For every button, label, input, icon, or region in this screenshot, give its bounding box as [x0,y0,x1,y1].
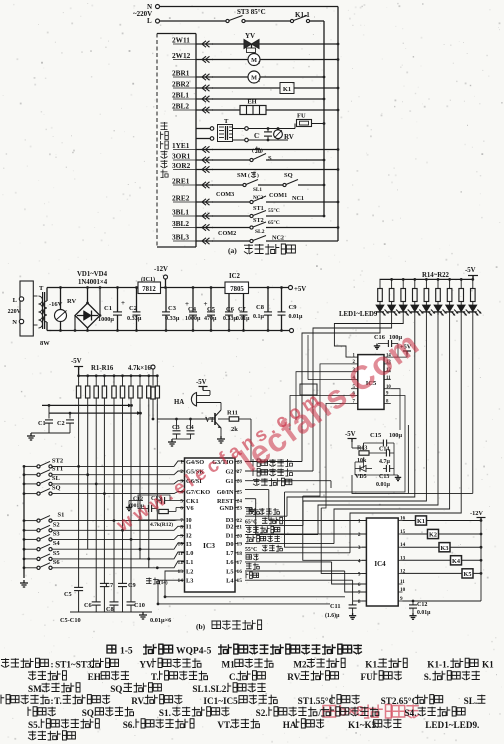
svg-text:CK1: CK1 [186,498,199,505]
wire input to transformer [33,295,37,297]
switch S5 [23,558,26,561]
svg-text:C5-C10: C5-C10 [60,617,81,624]
pin 8 IC5 [384,402,391,404]
relay K4 [451,556,462,565]
svg-text:55°C: 55°C [245,546,257,553]
wire IC4 pin6 net from pin17 [332,562,367,584]
svg-text:T: T [39,285,44,292]
microswitch SM and door switch SQ on 2RE1 [212,184,243,186]
label indicator dry pin22 [245,515,287,517]
pin 12 IC5 [384,371,391,373]
svg-text:I1: I1 [186,524,192,531]
svg-text:S1.: S1. [159,708,171,718]
svg-text:WQP4-5: WQP4-5 [176,647,212,657]
wire LED9 net [472,322,474,493]
resistor R6 [121,374,124,377]
pin 10 IC5 [384,388,391,390]
svg-text:LED1~LED9: LED1~LED9 [339,311,378,318]
capacitor C7 0.01u [242,329,245,332]
wire pin25 [245,489,269,491]
svg-text:-5V: -5V [71,358,82,365]
svg-text:RV.: RV. [131,696,145,706]
svg-text:IC1~IC5.: IC1~IC5. [203,696,240,706]
svg-text:VT: VT [205,417,215,424]
label microcomputer control board (vertical) [161,122,168,130]
pin 1 IC5 [351,356,358,358]
relay K1 [416,516,427,525]
wire IC4 pin8 net from pin15 [352,580,354,601]
pin 14 IC4 [398,546,402,548]
svg-text:IC4: IC4 [374,560,386,568]
svg-text:C5: C5 [64,591,72,598]
svg-text:C12: C12 [417,602,427,608]
svg-text:D1: D1 [226,533,234,540]
svg-text:SM: SM [237,172,247,179]
svg-text:I2: I2 [186,533,192,540]
wire LED5 net [303,322,426,525]
label drain pin16 [245,570,345,572]
pin 8 IC4 [362,600,366,602]
wire row 2W11 [212,43,244,45]
svg-text:SQ: SQ [52,485,61,492]
svg-text:T.: T. [54,696,62,706]
ground for C1 C2 [30,433,32,436]
wire block bottom to LED9 [408,492,472,494]
svg-text:14: 14 [178,578,184,584]
svg-text:0.01μ: 0.01μ [289,314,304,320]
resistor R14 [379,279,381,288]
watermark red bottom [323,706,336,718]
wire left ground bus [23,466,25,578]
svg-text:0.33μ: 0.33μ [165,315,180,322]
capacitor C15 [382,440,384,447]
svg-text:16: 16 [237,569,243,575]
resistor R5 [113,374,116,377]
svg-text:C2: C2 [57,420,65,427]
pin 3 IC4 [362,546,366,548]
switch ST1 [23,473,26,476]
svg-text:-5V: -5V [345,431,356,438]
resistor R18 [425,278,428,281]
label indicator heating pin27 [245,470,313,472]
wire under-IC3 run upper [165,571,345,597]
svg-text:L6: L6 [226,559,233,566]
wire SL to IC3 [52,481,185,484]
svg-text:C14: C14 [379,447,389,453]
pin 11 IC4 [398,583,402,585]
svg-text:(1.6)μ: (1.6)μ [325,612,340,619]
svg-text:S1: S1 [58,512,65,519]
svg-text:2BL1: 2BL1 [172,91,189,100]
capacitor C4 1000u [192,286,195,289]
wire L line left [160,20,228,22]
wire IC5 inputs left [303,364,351,496]
pin 7 IC4 [362,591,366,593]
wire pin26 vertical [330,481,332,488]
wire L line mid [245,20,291,22]
svg-text:470μ: 470μ [204,316,217,322]
svg-text:9: 9 [180,533,183,539]
capacitor C2 0.33u [135,286,138,289]
svg-text:S4.: S4. [404,708,416,718]
wire HA to VT collector [220,403,222,411]
svg-text:100μ: 100μ [389,432,402,439]
resistor R19 [437,278,440,281]
svg-text:RV.: RV. [287,672,301,682]
relay K5 [462,569,473,578]
svg-text:S6.: S6. [123,720,135,730]
svg-text:C5: C5 [207,306,216,313]
svg-text:1YE1: 1YE1 [172,141,190,150]
ground VT emitter [220,436,222,439]
switch SQ [23,492,26,495]
svg-text:(a): (a) [228,246,237,255]
svg-text:10: 10 [386,385,391,390]
svg-text:M2.: M2. [293,660,309,670]
pin 6 IC4 [362,583,366,585]
svg-text:4: 4 [358,558,361,564]
svg-text:K3: K3 [441,545,449,552]
scan speckle noise [163,113,166,116]
svg-text:NC1: NC1 [292,195,304,202]
svg-text:): ) [261,147,263,154]
wire block outline right [352,425,408,493]
wire IC4 pin3 net [285,492,367,547]
wire IC4 pin9 bottom [403,600,482,602]
svg-text:S2: S2 [53,521,60,528]
pin 4 IC4 [362,559,366,561]
wire SQ to IC3 [52,492,185,494]
LED LED4 [411,305,419,312]
wire LED supply bus [380,278,474,280]
svg-text:C3: C3 [172,424,180,431]
svg-text:20: 20 [237,533,243,539]
svg-text:19: 19 [237,542,243,548]
wire S2 to IC3 [52,526,185,530]
ground C12 bottom [412,613,414,616]
resistor R10 [156,374,159,377]
relay K3 [439,543,450,552]
label indicator rinse pin26 [245,480,331,482]
svg-text:7812: 7812 [142,286,156,293]
ground caps rail [142,612,144,615]
svg-text:YV.: YV. [139,660,153,670]
svg-text:17: 17 [237,560,243,566]
svg-text:15: 15 [237,578,243,584]
svg-text:T.: T. [151,672,159,682]
wire IC4 pin2 net [255,499,257,534]
capacitor C8 0.1u [267,286,270,289]
resistor R22 [471,278,474,281]
svg-text:SM.: SM. [28,684,44,694]
svg-text:C7: C7 [238,306,246,313]
label indicator standard-wash pin20 [245,534,318,536]
svg-text:4.7μ: 4.7μ [379,459,391,465]
svg-text:C6: C6 [226,306,235,313]
svg-text:2W11: 2W11 [172,36,190,45]
svg-text:COM1: COM1 [269,192,287,199]
switch S4 [23,548,26,551]
svg-text:C15: C15 [370,432,382,439]
wire +5V dropline [307,335,309,380]
svg-text:C1: C1 [104,305,112,312]
svg-text:23: 23 [237,506,243,512]
wire IC5 pin14 to +5V [391,356,407,358]
svg-text:0.01μ: 0.01μ [236,316,250,322]
water level switch SL1 contacts COM3 COM1 NC1 on 2RE2 [212,201,250,203]
svg-text:0.01μ: 0.01μ [376,482,391,488]
svg-text:L: L [147,17,152,25]
wire row 2BR2 [212,87,280,89]
capacitor C6 0.33u [228,286,231,289]
resistor R21 [460,278,463,281]
ground C16 [378,343,384,345]
svg-text:G1: G1 [225,478,233,485]
svg-text:RV: RV [284,133,294,141]
svg-text:YV: YV [245,32,255,40]
capacitor C13 osc [160,497,162,504]
wire row 1YE1 [212,149,338,151]
wire row 3OR2 [212,169,338,171]
svg-text:18: 18 [237,551,243,557]
svg-text:S6: S6 [53,559,61,566]
wire LED1 to IC3 pin28 [302,322,380,462]
svg-text:VT.: VT. [217,720,231,730]
wire ST2 to IC3 [52,461,185,466]
svg-text:C.: C. [229,672,238,682]
pin 3 IC5 [351,371,358,373]
svg-text:K1.: K1. [365,660,379,670]
svg-text:22: 22 [237,518,243,524]
wire LED6 net [318,322,438,535]
svg-text:D0: D0 [226,541,234,548]
svg-text:26: 26 [237,479,243,485]
LED LED5 [422,305,430,312]
legend line4 control circuit [1,695,10,704]
svg-text:10: 10 [400,587,406,593]
pin 2 IC5 [351,363,358,365]
svg-text:L4: L4 [226,578,234,585]
wire under-IC3 run lower [158,580,330,604]
svg-text:SL.: SL. [464,696,478,706]
capacitor C11 bottom [352,601,354,605]
svg-text:S5: S5 [53,550,61,557]
wire osc block nets [138,495,170,509]
resistor R3 [95,374,98,377]
power rail bottom ground [61,330,290,332]
svg-text:SL1: SL1 [253,187,262,193]
ground osc block [128,505,130,507]
svg-text:C4: C4 [188,306,197,313]
svg-text:L2: L2 [186,568,193,575]
svg-text:V6: V6 [186,505,194,512]
svg-text:SL1.SL2.: SL1.SL2. [192,684,228,694]
switch S heating select [212,159,250,161]
svg-text:+: + [121,299,125,307]
switch ST2 [23,465,26,468]
svg-text:K1-1.: K1-1. [427,660,449,670]
svg-text:27: 27 [237,469,243,475]
svg-text:12: 12 [178,560,184,566]
svg-text:1: 1 [258,60,260,65]
svg-text:I3: I3 [186,541,192,548]
svg-text:1: 1 [358,519,361,525]
water level switch SL2 COM2 NC2 on 3BL3 [212,240,250,242]
svg-text:0.01μ×6: 0.01μ×6 [150,617,171,624]
resistor R12 osc [159,509,169,513]
svg-text:4.7k(R12): 4.7k(R12) [150,521,173,528]
svg-text:7805: 7805 [230,286,244,293]
svg-text::: : [51,696,54,706]
wire column lines down to switches and IC3 [78,404,80,587]
label indicator quick-wash pin28 [245,461,302,463]
svg-text:): ) [257,172,259,179]
svg-text:RV: RV [67,298,76,305]
svg-text:2BR2: 2BR2 [172,80,190,89]
power rail top -12V raw [61,287,291,289]
svg-text:GND: GND [220,505,234,512]
svg-text:S.: S. [424,672,431,682]
svg-text:(b): (b) [196,622,206,631]
svg-text:2: 2 [258,78,260,83]
svg-text:L: L [13,297,18,304]
pin 4 IC5 [351,379,358,381]
svg-text:C10: C10 [134,602,145,609]
svg-text:K1: K1 [482,660,494,670]
svg-text:C: C [254,132,259,140]
svg-text:8: 8 [180,524,183,530]
svg-text:K1: K1 [417,518,425,525]
svg-text:3OR2: 3OR2 [172,161,191,170]
svg-text:(: ( [248,172,250,179]
svg-text:7: 7 [358,590,361,596]
svg-text:S4: S4 [53,540,61,547]
wire N line [160,6,339,8]
wire resistor array top bus [78,367,80,376]
svg-text:S5.: S5. [28,720,40,730]
svg-text:65°C: 65°C [268,219,280,226]
svg-text:S: S [268,155,272,162]
svg-text::: : [51,660,54,670]
resonator box on IC5 wires [300,384,317,395]
svg-text:ST1.55°C: ST1.55°C [298,696,336,706]
svg-text:K5: K5 [464,571,472,578]
svg-text:6: 6 [180,506,183,512]
wire R11 to IC3 pin28 column [239,418,252,420]
terminal from power to control [151,365,155,369]
svg-text:-5V: -5V [465,267,476,274]
thermostat ST3 85C [226,19,229,22]
svg-text:2BR1: 2BR1 [172,69,190,78]
ground C3 C4 [171,439,173,442]
AC input terminal block L 220V N [20,281,33,336]
wire +5V feed line upper [42,404,132,406]
svg-text:ST1: ST1 [253,205,264,212]
LED LED9 [469,305,477,312]
svg-text:IC3: IC3 [203,541,215,550]
svg-text:-12V: -12V [470,510,483,517]
pin 13 IC4 [398,559,402,561]
wire base line [157,418,215,420]
pin 5 IC5 [351,388,358,390]
svg-text:FU.: FU. [361,672,376,682]
svg-text:1000μ: 1000μ [98,316,114,323]
wire FU to bus [312,123,325,125]
wire relay K5 feed [403,572,482,574]
label fill pin15 [245,579,353,581]
svg-text:2: 2 [358,532,361,538]
title figure 1-5 [107,645,116,653]
svg-text:10: 10 [178,542,184,548]
wire ST1 to IC3 [52,471,185,475]
wire caps common rail [70,611,152,613]
svg-text:NC2: NC2 [272,235,284,242]
wire S3 to IC3 [52,535,185,539]
wire LED2 to IC3 pin27 [313,322,392,471]
LED LED1 [376,305,384,312]
svg-text:21: 21 [237,524,243,530]
svg-text:FU: FU [297,113,306,120]
svg-text:13: 13 [178,569,184,575]
svg-text:10k: 10k [357,458,367,464]
switch S1 [23,519,26,522]
wire IC5 pin7 left [321,403,351,508]
wire S5 to IC3 [52,552,185,559]
wire IC4 pin7 net from pin16 [345,571,367,592]
IC U IC3 microcontroller [185,458,236,592]
wire LED7 net [334,322,450,544]
relay K2 [428,529,439,538]
svg-text:R1-R16: R1-R16 [91,365,114,372]
svg-text:ST2.65°C: ST2.65°C [381,696,419,706]
svg-text:C6: C6 [84,602,92,609]
wire relay K3 feed [403,546,482,548]
wire IC4 pin1 net [268,490,270,521]
svg-text:COM2: COM2 [218,230,236,237]
wire row 3OR1 right [266,159,324,161]
wire IC4 pin5 net [321,508,366,573]
svg-text:2k: 2k [231,426,238,433]
motor M2 wash [248,71,260,83]
resistor R4 [103,374,106,377]
ground block [393,443,395,475]
pin 6 IC5 [351,395,358,397]
pin 5 IC4 [362,572,366,574]
svg-text:HA: HA [174,399,184,406]
svg-text:L1: L1 [186,559,193,566]
svg-text:1000μ: 1000μ [185,316,201,322]
wire row 2BR1 [212,76,248,78]
svg-text:SQ.: SQ. [82,708,97,718]
resistor R12 vertical [152,369,154,387]
pin 16 IC4 [398,520,402,522]
transformer T (machine) [210,127,214,131]
svg-text:T: T [224,118,229,125]
svg-text:55°C: 55°C [268,207,280,214]
svg-text:COM3: COM3 [216,191,234,198]
resistor R15 [390,278,393,281]
switch S6 [23,566,26,569]
capacitor C12 osc [147,505,149,512]
wire N bus right vertical [337,7,339,242]
wire pin24 [245,498,256,500]
wire relay K1 feed [403,520,482,522]
legend line5 [28,707,37,716]
pin 15 IC4 [398,533,402,535]
svg-text:C2: C2 [129,305,137,312]
wire relay K2 feed [403,533,482,535]
wire IC5 pin6 left [290,396,351,431]
